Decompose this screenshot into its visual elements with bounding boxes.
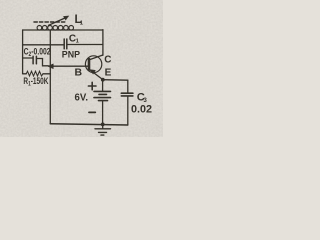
transistor emitter lead (89, 69, 103, 79)
paper background (0, 0, 163, 137)
transistor Q1 circle (85, 56, 101, 73)
arrowhead at base junction (48, 64, 53, 69)
wire: R1 right lead (43, 73, 50, 75)
capacitor C1 plates (63, 39, 65, 49)
junction dot at battery/ground node (101, 123, 105, 127)
svg-text:E: E (105, 68, 112, 79)
battery plus sign (88, 85, 96, 87)
wire: R1 left lead (23, 73, 26, 75)
svg-text:C: C (104, 55, 111, 66)
wire: collector rail (102, 30, 104, 56)
resistor R1 zigzag (26, 71, 43, 76)
ground symbol (95, 128, 111, 130)
battery B1 plates (94, 90, 111, 92)
ground lead (102, 124, 104, 128)
adjustable-core dashed line of L1 (34, 21, 67, 23)
wire: battery top lead (102, 80, 104, 92)
svg-text:0.02: 0.02 (131, 104, 152, 116)
wire: emitter node to C3 (103, 79, 128, 82)
wire: left rail (22, 30, 24, 74)
capacitor C2 plates (32, 56, 34, 63)
capacitor C3 plates (121, 92, 133, 94)
wire: battery bottom lead (102, 101, 104, 125)
wire: C1 rail right (68, 44, 103, 46)
underline of PNP (62, 58, 81, 60)
adjustment arrow through L1 (49, 18, 66, 26)
wire: C2 left lead (23, 57, 33, 59)
emitter arrowhead (PNP, pointing in) (90, 70, 95, 74)
wire: C2 right lead with jog (37, 59, 48, 66)
base wire (50, 65, 88, 67)
wire: C3 bottom lead (127, 96, 129, 125)
wire: top rail (23, 29, 103, 31)
transistor base bar (88, 59, 91, 70)
svg-text:R1-150K: R1-150K (23, 76, 48, 88)
wire: C3 top lead (127, 80, 129, 93)
battery minus sign (89, 111, 95, 113)
svg-text:PNP: PNP (62, 48, 80, 59)
svg-text:B: B (75, 67, 83, 79)
junction dot at emitter node (101, 78, 105, 82)
wire: C1 rail left (23, 44, 64, 46)
inductor L1 coil (37, 26, 73, 31)
svg-text:C2-0.002: C2-0.002 (24, 47, 51, 59)
wire: coil tap line down to bottom rail (49, 30, 51, 124)
wire: bottom rail (50, 124, 128, 125)
svg-text:6V.: 6V. (75, 93, 89, 104)
transistor collector lead (89, 55, 103, 60)
